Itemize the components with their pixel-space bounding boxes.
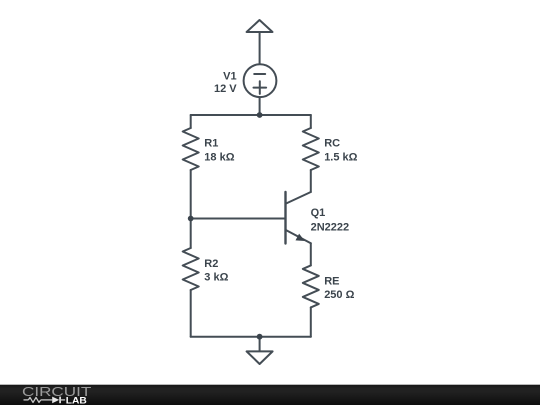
svg-text:2N2222: 2N2222 [311,222,350,234]
svg-text:12 V: 12 V [214,83,237,95]
wire RE to bottom rail [310,307,312,336]
ground [259,337,261,352]
voltage source V1 [244,64,277,97]
resistor R1 [183,128,199,170]
wire RC to collector [310,170,312,192]
wire R1 to base node [190,170,192,219]
logo wire-resistor-diode symbol [24,397,66,404]
wire V1 to top rail [259,97,261,115]
footer bar [0,385,540,405]
wire R2 to bottom rail [190,290,192,337]
svg-text:1.5 kΩ: 1.5 kΩ [324,152,357,164]
node top [257,112,263,118]
wire base node to R2 [190,219,192,249]
svg-text:3 kΩ: 3 kΩ [204,272,228,284]
svg-text:Q1: Q1 [311,207,326,219]
wire arrow to V1 [259,32,261,65]
svg-text:V1: V1 [223,70,236,82]
resistor RE [303,265,319,307]
svg-text:250 Ω: 250 Ω [324,289,354,301]
svg-text:RC: RC [324,138,340,150]
wire bottom rail [191,336,311,338]
wire left down to R1 [190,115,192,128]
VCC arrow symbol [247,20,273,32]
svg-text:18 kΩ: 18 kΩ [204,152,234,164]
resistor R2 [183,248,199,290]
wire base [191,218,286,220]
node base [188,216,194,222]
resistor RC [303,128,319,170]
wire emitter to RE [310,243,312,265]
svg-text:RE: RE [324,275,339,287]
svg-text:R1: R1 [204,138,218,150]
svg-text:R2: R2 [204,258,218,270]
transistor Q1 [286,192,311,244]
wire right down to RC [310,115,312,128]
node bottom [257,334,263,340]
svg-text:LAB: LAB [66,396,88,405]
wire top rail [191,114,311,116]
